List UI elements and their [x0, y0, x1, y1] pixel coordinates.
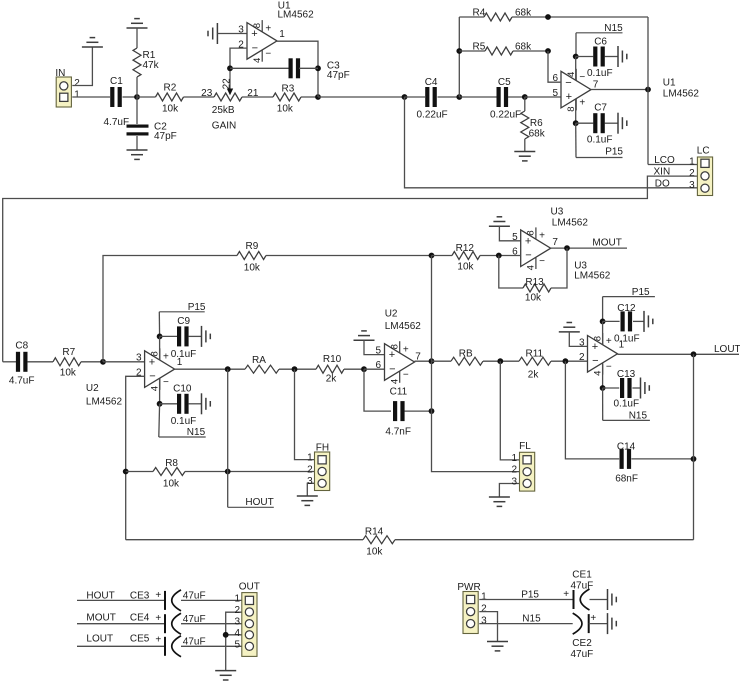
capacitor C8 — [16, 352, 20, 372]
wire node J to C14 — [565, 361, 619, 459]
svg-text:10k: 10k — [163, 479, 180, 490]
wire R13 to MOUT — [551, 248, 567, 288]
wire node C riser — [458, 17, 460, 97]
wire R12 node to R13 — [499, 256, 523, 289]
capacitor C2 — [127, 125, 149, 128]
junction C6 — [573, 54, 579, 60]
svg-text:6: 6 — [376, 360, 382, 371]
wire node A to C2 — [136, 97, 138, 124]
junction node D — [522, 94, 528, 100]
resistor R7 — [53, 358, 81, 366]
junction U2b output — [429, 358, 435, 364]
wire P15 line — [479, 599, 573, 601]
wire R14 left — [126, 539, 363, 541]
capacitor C6 — [593, 47, 597, 67]
svg-text:2k: 2k — [326, 374, 338, 385]
ground at IN pin2 — [82, 46, 103, 48]
capacitor C1 — [110, 87, 114, 107]
svg-text:0.1uF: 0.1uF — [587, 68, 613, 79]
wire U1 pin2 to feedback — [230, 48, 247, 68]
svg-text:−: − — [252, 42, 258, 54]
resistor R12 — [452, 252, 480, 260]
ground at OUT — [215, 670, 236, 672]
resistor R10 — [316, 365, 344, 373]
resistor R8 — [153, 468, 185, 476]
capacitor CE4 — [164, 614, 166, 633]
svg-text:C13: C13 — [617, 369, 636, 380]
wire C7 right lead — [605, 122, 619, 124]
svg-text:10k: 10k — [366, 547, 383, 558]
svg-text:10k: 10k — [277, 104, 294, 115]
op-amp U2 second half — [385, 344, 415, 381]
svg-text:1: 1 — [307, 453, 313, 464]
capacitor CE5 — [164, 637, 166, 656]
capacitor C13 — [620, 378, 624, 398]
ground at FH — [297, 495, 318, 497]
svg-text:R11: R11 — [526, 348, 544, 359]
svg-text:10k: 10k — [244, 262, 261, 273]
svg-text:MOUT: MOUT — [592, 237, 621, 248]
svg-text:5: 5 — [552, 88, 558, 99]
resistor R3 — [273, 93, 301, 101]
svg-text:CE3: CE3 — [130, 591, 150, 602]
ground at PWR pin2 — [487, 641, 508, 643]
wire P15 to C12 junction — [602, 297, 604, 322]
capacitor C9 — [177, 326, 181, 346]
wire U2a output — [175, 368, 245, 370]
wire C1 to node A — [123, 96, 138, 98]
junction LOUT — [691, 351, 697, 357]
svg-text:4: 4 — [526, 265, 537, 270]
wire N15 to C6 junction — [575, 33, 577, 57]
potentiometer GAIN element — [214, 93, 242, 101]
wire node H to U2 pin6 — [364, 368, 385, 370]
wire node A to R2 — [137, 96, 156, 98]
wire U3b stub to C12 — [602, 321, 604, 344]
svg-text:LM4562: LM4562 — [86, 397, 123, 408]
junction C9 — [157, 334, 163, 340]
ground at C9 — [201, 326, 203, 347]
svg-text:+: + — [590, 613, 596, 624]
wire N15 line — [479, 623, 572, 625]
op-amp U1 first half — [247, 23, 277, 60]
wire R6 to ground — [524, 139, 526, 152]
svg-text:+: + — [155, 613, 161, 624]
op-amp U1 second half — [561, 71, 591, 108]
svg-text:PWR: PWR — [457, 582, 480, 593]
junction feedback left — [227, 65, 233, 71]
svg-text:+: + — [566, 91, 572, 103]
resistor R13 — [523, 284, 551, 292]
svg-text:+: + — [163, 352, 169, 363]
capacitor C11 — [393, 401, 397, 421]
op-amp U2 first half — [145, 351, 175, 388]
wire OUT pin2 to ground bus — [226, 612, 246, 670]
resistor R14 — [363, 536, 395, 544]
wire C13 to N15 — [602, 388, 604, 420]
wire U1 output — [277, 41, 318, 97]
svg-text:10k: 10k — [525, 293, 542, 304]
svg-text:FL: FL — [519, 441, 531, 452]
svg-text:2: 2 — [307, 464, 313, 475]
svg-text:C10: C10 — [173, 383, 192, 394]
svg-text:+: + — [155, 590, 161, 601]
svg-text:68k: 68k — [515, 41, 532, 52]
svg-text:LOUT: LOUT — [714, 344, 740, 355]
svg-text:+: + — [403, 344, 409, 355]
resistor RA — [245, 365, 279, 373]
wire LOUT line — [77, 645, 165, 647]
wire C14 to LOUT bus — [631, 458, 693, 460]
svg-text:0.1uF: 0.1uF — [614, 334, 640, 345]
svg-text:0.22uF: 0.22uF — [417, 110, 448, 121]
wire C9 right lead — [188, 335, 201, 337]
svg-text:0.1uF: 0.1uF — [587, 135, 613, 146]
svg-text:+: + — [592, 341, 598, 353]
svg-text:47pF: 47pF — [154, 131, 177, 142]
svg-text:HOUT: HOUT — [245, 497, 273, 508]
wire RA to node G — [279, 368, 316, 370]
wire C6 right lead — [605, 56, 619, 58]
svg-text:10k: 10k — [457, 262, 474, 273]
wire U2b output — [415, 360, 432, 362]
svg-text:68k: 68k — [515, 7, 532, 18]
svg-text:3: 3 — [238, 25, 244, 36]
wire U2a stub to C10 — [159, 380, 161, 404]
connector LC — [697, 157, 712, 196]
svg-text:5: 5 — [512, 232, 518, 243]
wire bus to FL pin2 — [432, 361, 520, 471]
svg-text:C4: C4 — [425, 77, 438, 88]
wire C9 left lead — [160, 335, 177, 337]
svg-text:C6: C6 — [594, 37, 607, 48]
op-amp U3 first half — [521, 230, 551, 267]
svg-text:4.7uF: 4.7uF — [104, 117, 130, 128]
svg-text:N15: N15 — [522, 614, 541, 625]
capacitor CE2 — [588, 614, 590, 633]
junction R12 right — [496, 253, 502, 259]
svg-text:R4: R4 — [473, 7, 486, 18]
svg-text:CE2: CE2 — [572, 638, 592, 649]
wire node D to R6 — [524, 97, 526, 111]
op-amp U3 second half — [588, 336, 618, 373]
resistor R11 — [519, 357, 551, 365]
wire C10 left lead — [160, 403, 177, 405]
svg-text:1: 1 — [689, 156, 695, 167]
svg-text:−: − — [163, 377, 169, 388]
svg-text:+: + — [251, 28, 257, 40]
wire R10 to node H — [344, 368, 364, 370]
svg-text:−: − — [149, 371, 155, 383]
junction C14 right — [691, 456, 697, 462]
junction C11 right — [429, 408, 435, 414]
wire U1b output — [591, 89, 648, 91]
wire LOUT bus down — [693, 354, 695, 539]
wire C7 to P15 — [575, 123, 577, 157]
wire C13 left lead — [603, 387, 620, 389]
svg-text:1: 1 — [511, 453, 517, 464]
svg-text:−: − — [389, 363, 395, 375]
svg-text:0.1uF: 0.1uF — [171, 416, 197, 427]
svg-text:LOUT: LOUT — [86, 633, 113, 644]
wire R12 to U3 pin6 — [480, 255, 521, 257]
ground at C10 — [201, 393, 203, 414]
svg-text:R2: R2 — [164, 82, 177, 93]
svg-text:8: 8 — [390, 344, 401, 349]
svg-text:DO: DO — [655, 178, 670, 189]
capacitor C4 — [425, 87, 429, 107]
svg-text:10k: 10k — [60, 367, 77, 378]
wire C12 left lead — [603, 320, 620, 322]
capacitor C5 — [497, 87, 501, 107]
svg-text:4.7nF: 4.7nF — [385, 426, 411, 437]
svg-text:4: 4 — [234, 628, 240, 639]
wire OUT pin4 stub — [226, 634, 246, 636]
svg-text:1: 1 — [234, 593, 240, 604]
svg-text:2: 2 — [481, 603, 487, 614]
svg-text:+: + — [149, 356, 155, 368]
wire U2 pin2 feedback riser — [126, 376, 145, 539]
svg-text:P15: P15 — [605, 147, 623, 158]
capacitor C14 — [620, 449, 624, 469]
svg-text:3: 3 — [689, 180, 695, 191]
wire R5 right lead — [513, 50, 548, 52]
svg-text:8: 8 — [593, 336, 604, 341]
wire CE2 to ground — [589, 623, 608, 625]
connector OUT — [242, 593, 257, 657]
svg-text:2: 2 — [74, 78, 80, 89]
svg-text:LM4562: LM4562 — [663, 89, 700, 100]
svg-text:47uF: 47uF — [571, 580, 594, 591]
svg-text:4: 4 — [390, 379, 401, 384]
wire R7 to node E — [81, 361, 103, 363]
svg-text:0.1uF: 0.1uF — [614, 399, 640, 410]
wire R14 right — [395, 539, 694, 541]
svg-text:FH: FH — [316, 442, 329, 453]
svg-text:1: 1 — [481, 591, 487, 602]
wire IN pin1 to C1 — [72, 96, 110, 98]
wire R4 right lead — [512, 16, 648, 18]
svg-text:−: − — [592, 355, 598, 367]
svg-text:LCO: LCO — [654, 155, 675, 166]
resistor R1 — [133, 48, 141, 77]
ground at U2 pin5 — [354, 339, 375, 341]
ground at R6 — [514, 151, 535, 153]
wire C10 right lead — [188, 403, 201, 405]
ground at C6 — [617, 46, 619, 67]
wire node F to R12 — [432, 255, 453, 257]
potentiometer GAIN wiper — [229, 68, 231, 89]
svg-text:−: − — [565, 77, 571, 89]
wire node I to FL pin1 — [500, 361, 519, 460]
svg-text:C11: C11 — [390, 386, 408, 397]
junction C10 — [157, 401, 163, 407]
ground at FL — [489, 496, 510, 498]
svg-text:P15: P15 — [188, 302, 206, 313]
capacitor C3 — [289, 58, 293, 78]
wire R8 to FH pin2 — [185, 471, 315, 473]
wire ground to R1 — [136, 28, 138, 48]
connector PWR — [463, 592, 478, 634]
junction feedback right — [315, 65, 321, 71]
wire C6 left lead — [576, 56, 594, 58]
junction node A — [134, 94, 140, 100]
ground at C13 — [640, 378, 642, 399]
wire node B to node DO — [318, 96, 405, 98]
svg-text:8: 8 — [252, 23, 263, 28]
svg-text:OUT: OUT — [239, 581, 260, 592]
svg-text:U2: U2 — [385, 308, 398, 319]
ground at C12 — [643, 311, 645, 332]
junction OUT pin4 ground — [223, 632, 229, 638]
junction node J — [563, 358, 569, 364]
capacitor CE3 — [164, 591, 166, 610]
svg-text:CE5: CE5 — [130, 633, 150, 644]
ground at U1 pin3 — [216, 23, 218, 44]
svg-text:−: − — [606, 362, 612, 373]
wire C4 to node C — [438, 96, 460, 98]
svg-text:0.1uF: 0.1uF — [171, 349, 197, 360]
wire R2 to potentiometer — [184, 96, 215, 98]
svg-text:C5: C5 — [498, 77, 511, 88]
ground at CE2 — [607, 613, 609, 634]
svg-text:47k: 47k — [143, 60, 160, 71]
svg-text:C1: C1 — [110, 76, 123, 87]
wire ground to U2 pin5 — [364, 340, 385, 354]
wire C13 right lead — [632, 387, 640, 389]
svg-text:−: − — [579, 72, 585, 83]
svg-text:R13: R13 — [525, 277, 544, 288]
junction HOUT bus — [225, 469, 231, 475]
svg-text:LM4562: LM4562 — [278, 10, 315, 21]
svg-text:P15: P15 — [521, 590, 539, 601]
wire LOUT — [618, 353, 740, 355]
svg-text:0.22uF: 0.22uF — [490, 110, 521, 121]
svg-text:3: 3 — [307, 476, 313, 487]
svg-text:1: 1 — [279, 29, 285, 40]
svg-text:+: + — [539, 231, 545, 242]
svg-text:5: 5 — [234, 639, 240, 650]
svg-text:R3: R3 — [282, 83, 295, 94]
connector FL — [520, 452, 535, 491]
wire C10 to N15 — [158, 404, 161, 437]
wire MOUT line — [77, 623, 165, 625]
wire IN pin2 to ground — [72, 47, 92, 86]
wire GAIN to R3 — [242, 96, 273, 98]
svg-text:RB: RB — [459, 348, 473, 359]
svg-text:R10: R10 — [323, 354, 342, 365]
svg-text:LM4562: LM4562 — [385, 321, 422, 332]
svg-text:R6: R6 — [530, 118, 543, 129]
svg-text:+: + — [606, 336, 612, 347]
svg-text:3: 3 — [136, 353, 142, 364]
svg-text:7: 7 — [552, 237, 558, 248]
svg-text:10k: 10k — [162, 104, 179, 115]
wire U2a output to HOUT — [227, 369, 229, 507]
junction node C — [456, 94, 462, 100]
svg-text:−: − — [265, 49, 271, 60]
junction R4 right — [545, 14, 551, 20]
svg-text:47pF: 47pF — [327, 70, 350, 81]
ground at C7 — [617, 113, 619, 134]
wire node G to FH pin1 — [295, 369, 315, 459]
svg-text:1: 1 — [74, 90, 80, 101]
svg-text:IN: IN — [55, 68, 65, 79]
svg-text:+: + — [265, 23, 271, 34]
svg-text:RA: RA — [252, 355, 266, 366]
svg-text:XIN: XIN — [654, 167, 671, 178]
svg-text:47uF: 47uF — [571, 649, 594, 660]
junction node I — [497, 358, 503, 364]
wire C7 left lead — [576, 122, 594, 124]
svg-text:R9: R9 — [246, 241, 259, 252]
capacitor C12 — [621, 311, 625, 331]
wire RB to node I — [483, 360, 519, 362]
junction R5 right — [545, 48, 551, 54]
wire node C to C5 — [459, 96, 496, 98]
junction R5 left — [456, 48, 462, 54]
svg-text:22: 22 — [221, 78, 232, 90]
junction C13 — [600, 385, 606, 391]
resistor RB — [451, 357, 483, 365]
svg-text:R8: R8 — [165, 458, 178, 469]
ground at U3 pin3 — [559, 331, 580, 333]
wire CE4 to OUT pin3 — [181, 623, 246, 625]
svg-text:−: − — [525, 250, 531, 262]
svg-text:25kB: 25kB — [212, 105, 235, 116]
resistor R9 — [237, 252, 266, 260]
wire R5 node to U1 pin6 — [548, 51, 561, 82]
svg-text:R14: R14 — [365, 526, 384, 537]
junction MOUT — [564, 245, 570, 251]
svg-text:2k: 2k — [528, 369, 540, 380]
svg-text:R5: R5 — [473, 41, 486, 52]
svg-text:2: 2 — [689, 168, 695, 179]
svg-text:CE1: CE1 — [572, 570, 592, 581]
junction node DO — [402, 94, 408, 100]
wire R4 left lead — [459, 16, 484, 18]
ground at CE1 — [607, 589, 609, 610]
svg-text:R7: R7 — [62, 347, 75, 358]
wire node H to C11 — [364, 369, 391, 411]
ground at U3 pin5 — [489, 225, 510, 227]
resistor R5 — [485, 47, 513, 55]
wire R5 left lead — [459, 50, 485, 52]
svg-text:3: 3 — [511, 477, 517, 488]
wire C12 right lead — [633, 320, 644, 322]
svg-text:R12: R12 — [456, 243, 475, 254]
wire R1 to node A — [136, 77, 138, 97]
svg-text:+: + — [563, 589, 569, 600]
wire C5 to node D — [508, 96, 525, 98]
svg-text:4: 4 — [593, 371, 604, 376]
wire U2b output to RB — [432, 360, 452, 362]
wire ground to U3 pin3 — [569, 332, 587, 347]
junction node H — [361, 366, 367, 372]
junction node G — [292, 366, 298, 372]
junction node E — [100, 359, 106, 365]
svg-text:68nF: 68nF — [615, 473, 638, 484]
capacitor C7 — [593, 113, 597, 133]
junction R8 left — [123, 469, 129, 475]
wire DO — [405, 97, 701, 188]
junction C7 — [573, 120, 579, 126]
resistor R4 — [484, 13, 512, 21]
svg-text:C12: C12 — [617, 303, 636, 314]
svg-text:68k: 68k — [529, 129, 546, 140]
wire node E to U2 pin3 — [103, 361, 145, 363]
svg-text:5: 5 — [376, 346, 382, 357]
